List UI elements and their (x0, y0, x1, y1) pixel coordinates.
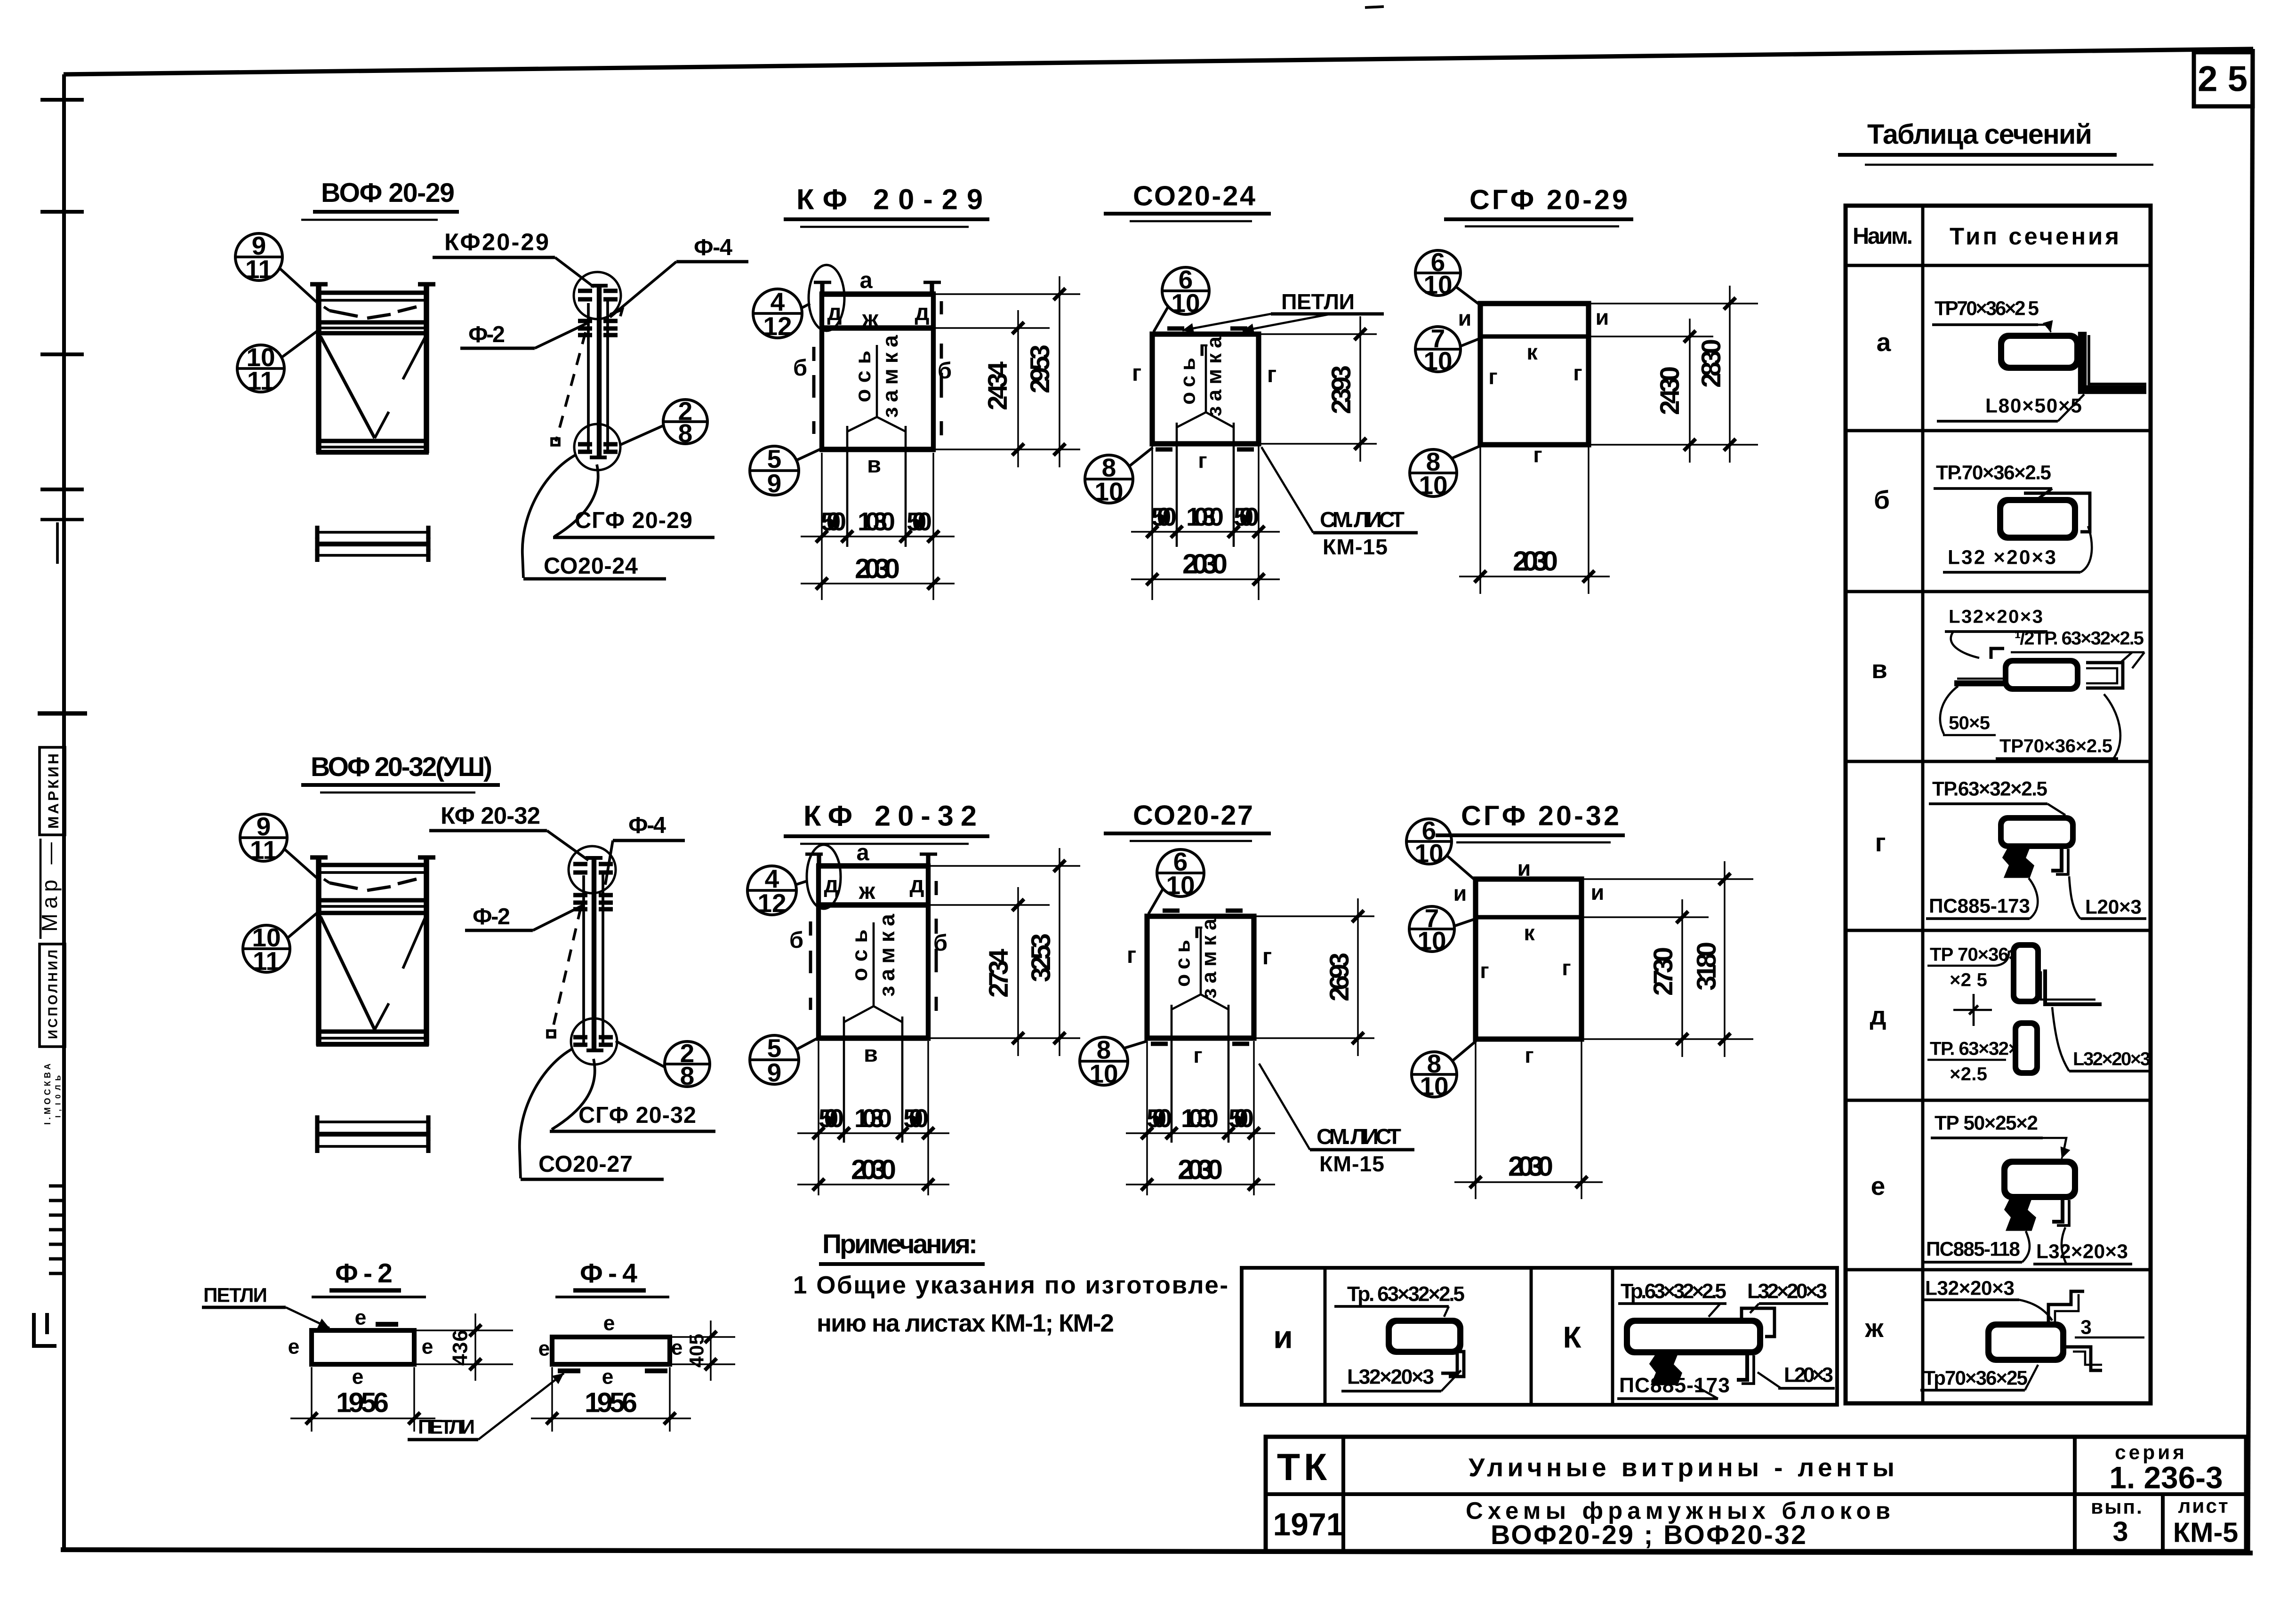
section д: ТР70х36х2.5 over ТР.63х32х2.5 + L32х20х3 (1927, 942, 2151, 1085)
dimension 2953 (936, 276, 1080, 467)
svg-text:ТК: ТК (1277, 1446, 1331, 1489)
title КФ 20-29 (784, 184, 989, 227)
stray mark top center (1365, 7, 1384, 8)
dimension 2430 (1591, 319, 1758, 463)
section б: ТР.70х36х2.5 + L32х20х3 (1934, 462, 2092, 573)
dimension 1956 Ф-2 (290, 1367, 435, 1432)
svg-text:а: а (856, 840, 869, 865)
label ПЕТЛИ bottom (408, 1373, 564, 1440)
hook mark (610, 310, 622, 316)
svg-text:б: б (793, 355, 807, 381)
svg-text:10: 10 (1171, 288, 1200, 318)
svg-text:3: 3 (2112, 1516, 2128, 1547)
svg-text:1971: 1971 (1273, 1507, 1344, 1543)
svg-text:405: 405 (686, 1334, 708, 1368)
svg-text:е: е (1871, 1171, 1886, 1201)
svg-text:3180: 3180 (1692, 942, 1722, 991)
svg-text:б: б (933, 930, 947, 956)
svg-text:500: 500 (1151, 502, 1177, 531)
dimension row 500-1030-500 КФ row2 (797, 1041, 949, 1195)
svg-text:е: е (671, 1337, 683, 1360)
label КФ 20-32 (429, 802, 588, 861)
frame diagram КФ 20-32 (805, 853, 937, 1041)
title block grid (1266, 1437, 2246, 1551)
detail circle top row1 (574, 272, 621, 319)
section ж: L32х20х3 + ТР70х36х25 (1920, 1277, 2144, 1391)
svg-text:а: а (1877, 328, 1891, 357)
svg-text:а: а (859, 268, 873, 293)
svg-text:ВОФ 20-29: ВОФ 20-29 (321, 178, 455, 208)
svg-text:КФ 20-32: КФ 20-32 (803, 800, 977, 833)
mullion section edge view row2 (573, 857, 613, 1052)
svg-text:нию на листах КМ-1; КМ: нию на листах КМ-1; КМ-2 (817, 1310, 1114, 1337)
svg-text:×2.5: ×2.5 (1950, 1064, 1987, 1085)
hinge dash marks КФ 20-32 (811, 881, 936, 1011)
sill plan view (three rails) (317, 526, 428, 562)
svg-text:Ф-2: Ф-2 (468, 322, 505, 347)
svg-text:ПЕТЛИ: ПЕТЛИ (418, 1416, 477, 1438)
svg-text:г: г (1127, 943, 1136, 968)
dimension 3180 (1584, 861, 1753, 1057)
svg-text:10: 10 (1423, 270, 1452, 299)
svg-text:11: 11 (245, 255, 273, 284)
section К texts (1618, 1280, 1828, 1317)
svg-text:ось: ось (1172, 940, 1195, 987)
svg-text:500: 500 (1234, 502, 1259, 531)
sidebar note г.Москва (43, 1064, 63, 1125)
dimension 2030 КФ (801, 553, 955, 590)
svg-text:г: г (1262, 944, 1272, 969)
svg-text:Таблица сечений: Таблица сечений (1867, 119, 2092, 150)
svg-text:ТР. 63×32×: ТР. 63×32× (1930, 1038, 2019, 1059)
lock axis КФ 20-29 (847, 335, 906, 547)
svg-text:ось: ось (1177, 358, 1200, 405)
frame diagram КФ 20-29 (814, 281, 941, 452)
mullion section edge view row1 (578, 285, 618, 459)
svg-text:11: 11 (247, 366, 274, 395)
svg-text:ПС885-173: ПС885-173 (1619, 1374, 1730, 1397)
svg-text:2434: 2434 (983, 361, 1013, 410)
svg-text:ось: ось (851, 351, 875, 402)
table header (1853, 223, 2119, 250)
dimension 2830 (1591, 286, 1758, 463)
svg-text:и: и (1453, 881, 1467, 905)
label СО20-27 (521, 1152, 664, 1179)
svg-text:2030: 2030 (1178, 1154, 1223, 1185)
title ВОФ 20-29 (301, 178, 459, 220)
svg-text:ВОФ20-29 ; ВОФ20-32: ВОФ20-29 ; ВОФ20-32 (1491, 1520, 1806, 1550)
svg-text:2030: 2030 (1182, 548, 1228, 580)
label СМ. ЛИСТ КМ-15 row2 (1259, 1064, 1414, 1176)
svg-text:СГФ 20-32: СГФ 20-32 (578, 1103, 696, 1128)
section strip table И-К (1242, 1268, 1837, 1405)
letters СГФ 20-29 (1458, 305, 1609, 467)
svg-text:Уличные витрины - ленты: Уличные витрины - ленты (1469, 1453, 1895, 1482)
svg-text:КФ 20-32: КФ 20-32 (441, 802, 540, 829)
title ВОФ 20-32 (УШ) (301, 752, 500, 792)
svg-text:к: к (1526, 340, 1538, 364)
svg-text:г: г (1573, 360, 1582, 385)
svg-text:в: в (867, 452, 881, 478)
section К tube (1624, 1308, 1774, 1384)
svg-text:1. 236-3: 1. 236-3 (2109, 1461, 2223, 1495)
svg-text:1030: 1030 (858, 507, 895, 536)
dimension 2730 (1584, 899, 1753, 1057)
sill plan view row2 (317, 1115, 428, 1153)
svg-text:КМ-15: КМ-15 (1323, 535, 1388, 559)
svg-text:г: г (1488, 364, 1497, 389)
svg-text:СО20-24: СО20-24 (544, 553, 638, 579)
svg-text:500: 500 (819, 1104, 844, 1133)
detail circle 10/11 (237, 330, 318, 395)
svg-text:в: в (864, 1041, 878, 1067)
svg-text:серия: серия (2115, 1441, 2187, 1464)
svg-text:ТР.70×36×2.5: ТР.70×36×2.5 (1936, 462, 2051, 484)
detail circle 6/10 СГФ (1415, 248, 1481, 306)
sheet number box 25 (2194, 52, 2253, 106)
svg-text:L80×50×5: L80×50×5 (1985, 395, 2082, 417)
svg-text:11: 11 (253, 946, 280, 976)
svg-text:г: г (1267, 362, 1276, 387)
dimension 2393 (1261, 316, 1377, 462)
svg-text:Тр.63×32×2.5: Тр.63×32×2.5 (1621, 1280, 1726, 1303)
detail circle 4/12 row2 (747, 864, 807, 918)
dimension row 500-1030-500 СО row2 (1126, 1041, 1275, 1195)
svg-text:г: г (1562, 955, 1571, 980)
mullion end caps row1 (590, 286, 608, 457)
svg-text:СГФ 20-29: СГФ 20-29 (575, 508, 692, 533)
section И texts (1334, 1283, 1465, 1317)
svg-text:ПС885-173: ПС885-173 (1929, 895, 2030, 917)
svg-text:Ф-4: Ф-4 (694, 235, 732, 260)
detail circle 7/10 СГФ row2 (1409, 904, 1476, 955)
svg-text:500: 500 (821, 507, 846, 536)
label Ф-2 row1 (460, 322, 587, 348)
svg-text:СМ. ЛИСТ: СМ. ЛИСТ (1317, 1124, 1401, 1149)
svg-text:ось: ось (847, 929, 872, 981)
svg-text:Наим.: Наим. (1853, 224, 1913, 249)
frame diagram СГФ 20-29 (1478, 304, 1591, 445)
svg-text:ТР70×36×2.5: ТР70×36×2.5 (1999, 736, 2112, 757)
label ПЕТЛИ Ф-2 (202, 1284, 329, 1329)
title block вып (2091, 1496, 2143, 1547)
detail circle 6/10 СО (1154, 265, 1209, 332)
title СО20-24 (1104, 180, 1271, 222)
label СМ. ЛИСТ КМ-15 row1 (1261, 447, 1418, 559)
svg-text:и: и (1596, 305, 1609, 329)
left margin tick marks (38, 100, 87, 713)
svg-text:г: г (1525, 1043, 1533, 1067)
leader curve to СО20-27 (520, 1049, 573, 1178)
svg-text:Ф-4: Ф-4 (628, 813, 666, 838)
svg-text:КМ-5: КМ-5 (2173, 1517, 2238, 1548)
label СГФ 20-29 (553, 508, 714, 537)
section е: ТР 50х25х2 + ПС885-118 + L32х20х3 (1923, 1112, 2132, 1265)
svg-text:г: г (1193, 1043, 1202, 1067)
svg-text:Ф-2: Ф-2 (335, 1258, 393, 1289)
svg-text:L32×20×3: L32×20×3 (1347, 1366, 1434, 1389)
lock axis СО 20-24 (1177, 336, 1234, 547)
title КФ 20-32 (784, 800, 989, 844)
detail circle 2/8 row2 (616, 1039, 710, 1090)
svg-text:е: е (603, 1312, 615, 1335)
svg-text:б: б (938, 358, 952, 384)
svg-text:и: и (1273, 1320, 1293, 1355)
svg-text:2953: 2953 (1025, 344, 1055, 393)
letters КФ 20-32 (789, 840, 947, 1067)
svg-text:12: 12 (757, 889, 786, 918)
detail circle 5/9 row2 (750, 1033, 819, 1087)
svg-text:2030: 2030 (851, 1154, 896, 1185)
sidebar bracket (34, 1313, 56, 1346)
dimension row 500-1030-500 КФ (801, 453, 955, 600)
detail circle 8/10 СГФ row2 (1412, 1041, 1476, 1101)
label КФ20-29 (433, 229, 594, 288)
svg-text:к: к (1524, 921, 1535, 945)
row labels (1864, 328, 1891, 1343)
svg-text:и: и (1458, 306, 1472, 330)
detail circle top row2 (569, 846, 616, 893)
svg-text:1956: 1956 (336, 1387, 389, 1418)
letters СО 20-24 (1132, 336, 1276, 472)
letters СГФ 20-32 (1453, 856, 1605, 1067)
title block серия (2109, 1441, 2223, 1495)
svg-text:СО20-24: СО20-24 (1133, 180, 1255, 212)
svg-text:б: б (1874, 485, 1890, 514)
svg-text:г: г (1132, 360, 1141, 386)
svg-text:Ф-2: Ф-2 (473, 904, 510, 929)
svg-text:11: 11 (250, 835, 277, 865)
svg-text:1030: 1030 (854, 1104, 892, 1133)
svg-text:9: 9 (767, 469, 782, 498)
svg-text:Ф-4: Ф-4 (580, 1258, 637, 1289)
frame elevation ВОФ 20-32 (310, 857, 435, 1046)
svg-text:вып.: вып. (2091, 1496, 2143, 1518)
detail circle 8/10 СГФ (1410, 446, 1481, 500)
svg-text:и: и (1517, 856, 1531, 881)
svg-text:СГФ 20-29: СГФ 20-29 (1469, 184, 1628, 216)
detail oval on top-left corner row2 (807, 845, 841, 909)
dimension 2734 (931, 887, 1080, 1056)
svg-text:д: д (910, 872, 924, 897)
svg-text:436: 436 (449, 1330, 472, 1366)
svg-text:500: 500 (1147, 1104, 1172, 1133)
title block лист (2173, 1495, 2238, 1548)
leader curve to СГФ 20-32 (552, 1059, 595, 1129)
detail circle 9/11 (235, 231, 318, 304)
sidebar signature (37, 839, 62, 939)
svg-text:д: д (827, 300, 842, 325)
label ПЕТЛИ row1 (1182, 289, 1384, 334)
svg-text:КМ-15: КМ-15 (1319, 1152, 1384, 1176)
svg-text:1030: 1030 (1186, 502, 1224, 531)
svg-text:10: 10 (1089, 1059, 1118, 1089)
svg-text:е: е (355, 1306, 367, 1329)
lock axis КФ 20-32 (844, 913, 902, 1143)
svg-text:ПЕТЛИ: ПЕТЛИ (203, 1284, 269, 1306)
section в: L32х20х3 + 1/2ТР.63х32х2.5 + 50х5 + ТР70х36х2.5 (1940, 606, 2144, 759)
svg-text:12: 12 (763, 312, 792, 341)
svg-text:10: 10 (1166, 871, 1195, 900)
section И angle label (1341, 1366, 1461, 1392)
svg-text:1030: 1030 (1181, 1104, 1219, 1133)
svg-text:в: в (1871, 655, 1887, 684)
title Ф-4 (555, 1258, 669, 1297)
dimension 2030 СО (1131, 548, 1280, 585)
notes heading Примечания (819, 1229, 985, 1264)
svg-text:¹/2ТР. 63×32×2.5: ¹/2ТР. 63×32×2.5 (2015, 628, 2144, 649)
svg-text:ТР 50×25×2: ТР 50×25×2 (1935, 1112, 2038, 1134)
svg-text:2430: 2430 (1655, 366, 1685, 415)
letters е Ф-2 (288, 1306, 434, 1389)
detail circle 7/10 СГФ (1415, 324, 1481, 376)
svg-text:L32×20×3: L32×20×3 (1925, 1277, 2015, 1299)
svg-text:500: 500 (903, 1104, 929, 1133)
svg-text:е: е (602, 1366, 614, 1389)
svg-text:б: б (789, 928, 803, 953)
label Ф-2 row2 (465, 904, 583, 930)
svg-text:2693: 2693 (1325, 953, 1355, 1001)
svg-text:2030: 2030 (1508, 1151, 1553, 1182)
svg-text:10: 10 (1420, 1072, 1448, 1101)
frame elevation ВОФ 20-29 (310, 284, 435, 453)
svg-text:г: г (1480, 958, 1489, 983)
dimension 2434 (936, 310, 1080, 467)
label Ф-4 row2 (605, 813, 685, 885)
detail circle 8/10 СО (1085, 448, 1153, 506)
detail circle 6/10 СГФ row2 (1406, 816, 1476, 881)
leader curve to СГФ 20-29 (554, 464, 598, 536)
title Ф-2 (312, 1258, 426, 1297)
svg-text:Тип сечения: Тип сечения (1950, 223, 2119, 250)
dimension 405 (672, 1321, 735, 1381)
svg-text:2393: 2393 (1326, 365, 1357, 414)
sidebar stamp МАРКИН (40, 747, 65, 835)
svg-text:2030: 2030 (1513, 545, 1558, 577)
svg-text:СО20-27: СО20-27 (1133, 800, 1253, 831)
svg-text:ВОФ 20-32(УШ): ВОФ 20-32(УШ) (311, 752, 492, 782)
svg-text:L20×3: L20×3 (1784, 1364, 1833, 1387)
letters е Ф-4 (538, 1312, 683, 1389)
frame diagram СГФ 20-32 (1473, 879, 1584, 1039)
dimension 2030 СО row2 (1126, 1154, 1275, 1191)
svg-text:L32×20×3: L32×20×3 (2036, 1241, 2128, 1263)
detail circle 4/12 (753, 287, 810, 341)
svg-text:ТР.63×32×2.5: ТР.63×32×2.5 (1932, 778, 2047, 800)
svg-text:Тр. 63×32×2.5: Тр. 63×32×2.5 (1347, 1283, 1465, 1306)
svg-text:8: 8 (680, 1061, 695, 1090)
svg-text:500: 500 (907, 507, 932, 536)
section К labels bottom (1617, 1364, 1835, 1399)
title СО20-27 (1104, 800, 1271, 841)
plate Ф-4 (552, 1337, 670, 1371)
svg-text:L32×20×3: L32×20×3 (2073, 1049, 2151, 1070)
frame diagram СО 20-24 (1152, 328, 1259, 449)
dimension 2693 (1256, 898, 1374, 1056)
svg-text:10: 10 (1423, 346, 1452, 376)
svg-text:3: 3 (2080, 1316, 2092, 1338)
label СГФ 20-32 (550, 1103, 715, 1131)
letters КФ 20-29 (793, 268, 952, 478)
dimension 1956 Ф-4 (531, 1367, 691, 1432)
label СО20-24 (523, 553, 666, 579)
svg-text:500: 500 (1228, 1104, 1254, 1133)
svg-text:10: 10 (1414, 839, 1443, 868)
letters СО 20-27 (1127, 918, 1272, 1067)
heading Таблица сечений (1838, 119, 2153, 165)
hinge dash marks КФ 20-29 (814, 301, 941, 435)
lock axis СО 20-27 (1172, 918, 1229, 1143)
svg-text:2030: 2030 (855, 553, 900, 584)
section И tube (1386, 1318, 1464, 1377)
svg-text:8: 8 (678, 418, 693, 448)
svg-text:L32 ×20×3: L32 ×20×3 (1948, 546, 2056, 568)
dimension 2030 СГФ row2 (1454, 1041, 1603, 1199)
svg-text:Примечания:: Примечания: (822, 1229, 978, 1259)
svg-text:е: е (422, 1336, 434, 1359)
sidebar dashes (49, 1186, 64, 1273)
detail circle bottom row2 (571, 1018, 617, 1065)
svg-text:ПЕТЛИ: ПЕТЛИ (1281, 289, 1357, 314)
label Ф-4 row1 (610, 235, 748, 317)
svg-text:3253: 3253 (1026, 933, 1056, 982)
leader curve to СО20-24 (522, 455, 576, 578)
svg-text:L32×20×3: L32×20×3 (1747, 1280, 1827, 1303)
svg-text:1 Общие указания по изго: 1 Общие указания по изготовле- (793, 1272, 1228, 1299)
sidebar stamp ИСПОЛНИЛ (40, 944, 65, 1047)
svg-text:2 5: 2 5 (2198, 59, 2248, 99)
svg-text:Тр70×36×25: Тр70×36×25 (1923, 1367, 2028, 1389)
dashed leader to hinge row2 (547, 907, 581, 1037)
svg-text:д: д (1870, 1001, 1887, 1030)
svg-text:г: г (1875, 828, 1886, 857)
svg-text:ПС885-118: ПС885-118 (1926, 1238, 2020, 1260)
svg-text:г: г (1198, 448, 1207, 472)
svg-text:L20×3: L20×3 (2085, 896, 2142, 918)
frame diagram СО 20-27 (1147, 911, 1254, 1044)
detail circle 9/11 row2 (240, 812, 318, 879)
svg-text:2730: 2730 (1648, 947, 1678, 996)
svg-text:лист: лист (2178, 1495, 2229, 1517)
detail circle bottom row1 (574, 424, 620, 470)
sections table grid (1846, 206, 2151, 1403)
svg-text:д: д (824, 872, 839, 897)
dimension 2030 СГФ row1 (1459, 447, 1610, 594)
svg-text:ж: ж (862, 306, 879, 332)
svg-text:КФ20-29: КФ20-29 (444, 229, 549, 256)
svg-text:е: е (538, 1337, 550, 1361)
dimension row 500-1030-500 СО (1131, 446, 1280, 600)
svg-text:10: 10 (1419, 471, 1447, 500)
detail circle 5/9 (750, 444, 822, 498)
svg-text:×2 5: ×2 5 (1950, 969, 1987, 991)
svg-text:1956: 1956 (585, 1387, 637, 1418)
svg-text:50×5: 50×5 (1949, 712, 1990, 734)
svg-text:г: г (1533, 442, 1542, 467)
dimension 436 (416, 1313, 513, 1381)
section г: ТР.63х32х2.5 + ПС885-173 + L20х3 (1926, 778, 2146, 919)
svg-text:и: и (1591, 880, 1605, 905)
svg-text:е: е (352, 1366, 364, 1389)
plate Ф-2 (312, 1324, 414, 1364)
detail circle 10/11 row2 (243, 912, 318, 976)
title СГФ 20-32 (1436, 800, 1625, 843)
detail circle 6/10 СО row2 (1148, 847, 1204, 914)
svg-text:ж: ж (1864, 1313, 1884, 1343)
svg-text:10: 10 (1417, 926, 1446, 955)
svg-text:СГФ 20-32: СГФ 20-32 (1461, 800, 1619, 832)
svg-text:9: 9 (767, 1058, 782, 1087)
